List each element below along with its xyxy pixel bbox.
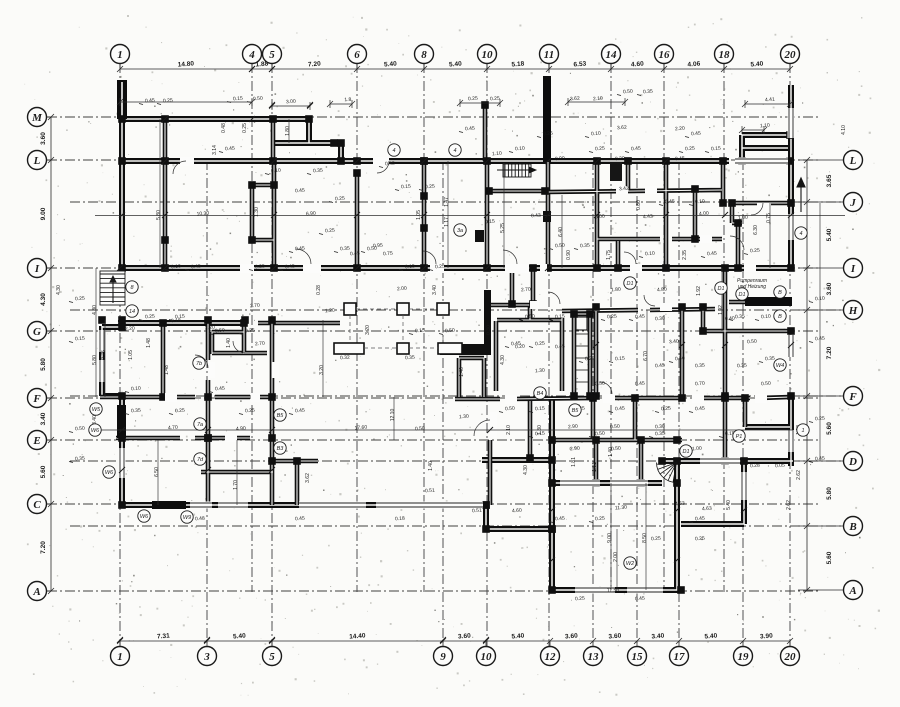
svg-text:0.25: 0.25 bbox=[335, 196, 345, 203]
dimension labels bbox=[40, 60, 833, 640]
svg-text:4.80: 4.80 bbox=[657, 287, 667, 294]
svg-text:L: L bbox=[33, 155, 41, 167]
svg-text:0.25: 0.25 bbox=[595, 516, 605, 523]
svg-text:4.63: 4.63 bbox=[702, 506, 712, 513]
svg-text:1.40: 1.40 bbox=[428, 461, 434, 471]
svg-text:4.30: 4.30 bbox=[523, 465, 529, 475]
svg-text:0.25: 0.25 bbox=[543, 131, 553, 138]
svg-text:0.50: 0.50 bbox=[367, 246, 377, 253]
svg-text:0.45: 0.45 bbox=[225, 146, 235, 153]
svg-text:0.28: 0.28 bbox=[750, 463, 760, 470]
svg-text:B5: B5 bbox=[277, 413, 285, 419]
terrace columns bbox=[334, 303, 462, 354]
svg-text:A: A bbox=[32, 586, 40, 598]
svg-text:3.65: 3.65 bbox=[826, 174, 833, 187]
svg-text:0.45: 0.45 bbox=[615, 406, 625, 413]
left dimension chain bbox=[50, 117, 52, 591]
svg-text:0.32: 0.32 bbox=[340, 355, 350, 362]
svg-text:4: 4 bbox=[392, 148, 395, 154]
pier bbox=[475, 230, 484, 242]
svg-text:3.40: 3.40 bbox=[669, 339, 679, 346]
svg-text:0.45: 0.45 bbox=[635, 596, 645, 603]
svg-text:0.25: 0.25 bbox=[585, 356, 595, 363]
svg-text:0.25: 0.25 bbox=[468, 96, 478, 103]
svg-text:20: 20 bbox=[784, 49, 797, 61]
svg-text:0.15: 0.15 bbox=[485, 219, 495, 226]
svg-text:6: 6 bbox=[354, 49, 360, 61]
svg-text:0.45: 0.45 bbox=[707, 251, 717, 258]
svg-text:2.70: 2.70 bbox=[250, 303, 260, 310]
svg-text:G: G bbox=[33, 326, 41, 338]
svg-text:0.10: 0.10 bbox=[695, 199, 705, 206]
svg-text:0.10: 0.10 bbox=[271, 168, 281, 175]
svg-text:7.20: 7.20 bbox=[826, 346, 833, 359]
svg-text:0.45: 0.45 bbox=[695, 406, 705, 413]
bottom dimension chain bbox=[120, 640, 790, 642]
svg-text:1.00: 1.00 bbox=[692, 446, 702, 453]
svg-text:0.35: 0.35 bbox=[580, 243, 590, 250]
svg-text:0.75: 0.75 bbox=[766, 213, 772, 223]
svg-text:D: D bbox=[848, 456, 857, 468]
svg-text:0.30: 0.30 bbox=[486, 325, 492, 335]
svg-text:3.40: 3.40 bbox=[40, 412, 47, 425]
svg-text:4.41: 4.41 bbox=[765, 97, 775, 104]
svg-text:5.25: 5.25 bbox=[500, 223, 506, 233]
svg-text:0.43: 0.43 bbox=[531, 213, 541, 220]
svg-text:17: 17 bbox=[674, 651, 686, 663]
svg-text:0.45: 0.45 bbox=[145, 98, 155, 105]
svg-text:0.15: 0.15 bbox=[405, 264, 415, 271]
svg-text:0.25: 0.25 bbox=[695, 536, 705, 543]
svg-text:0.10: 0.10 bbox=[815, 296, 825, 303]
svg-text:W4: W4 bbox=[776, 363, 784, 369]
svg-text:0.25: 0.25 bbox=[535, 341, 545, 348]
top dimension chain bbox=[37, 54, 844, 646]
black pier west wall bbox=[117, 405, 126, 438]
svg-text:2.20: 2.20 bbox=[125, 326, 135, 333]
svg-text:1: 1 bbox=[117, 49, 123, 61]
svg-text:0.28: 0.28 bbox=[316, 285, 322, 295]
svg-text:0.35: 0.35 bbox=[695, 363, 705, 370]
dimension tick slashes bbox=[117, 66, 794, 643]
micro wall-thickness annotations bbox=[69, 89, 825, 523]
svg-text:0.10: 0.10 bbox=[761, 314, 771, 321]
window openings bbox=[99, 108, 795, 594]
chimney mass top-left bbox=[117, 80, 127, 119]
svg-text:4.43: 4.43 bbox=[643, 214, 653, 221]
svg-text:3.42: 3.42 bbox=[619, 186, 629, 193]
svg-text:M: M bbox=[31, 112, 43, 124]
svg-text:1.92: 1.92 bbox=[696, 286, 702, 296]
svg-text:4: 4 bbox=[799, 231, 802, 237]
svg-text:15: 15 bbox=[632, 651, 644, 663]
svg-text:1: 1 bbox=[117, 651, 123, 663]
svg-text:2.70: 2.70 bbox=[521, 287, 531, 294]
svg-text:6.70: 6.70 bbox=[643, 351, 649, 361]
svg-text:0.45: 0.45 bbox=[655, 363, 665, 370]
svg-text:0.25: 0.25 bbox=[685, 146, 695, 153]
svg-text:W6: W6 bbox=[91, 428, 100, 434]
svg-text:0.50: 0.50 bbox=[747, 339, 757, 346]
svg-text:0.25: 0.25 bbox=[163, 98, 173, 105]
svg-text:0.45: 0.45 bbox=[511, 341, 521, 348]
black wall segment south bbox=[152, 501, 186, 509]
svg-text:0.25: 0.25 bbox=[661, 406, 671, 413]
svg-text:H: H bbox=[848, 305, 858, 317]
fireplace mass living room corner bbox=[484, 290, 491, 355]
svg-text:20: 20 bbox=[784, 651, 797, 663]
svg-text:7.20: 7.20 bbox=[40, 541, 47, 554]
svg-text:14.80: 14.80 bbox=[178, 60, 195, 68]
svg-text:1.81: 1.81 bbox=[571, 457, 577, 467]
svg-text:0.15: 0.15 bbox=[535, 406, 545, 413]
svg-text:6.50: 6.50 bbox=[154, 467, 160, 477]
svg-text:W5: W5 bbox=[92, 407, 101, 413]
svg-text:0.45: 0.45 bbox=[815, 456, 825, 463]
svg-text:1: 1 bbox=[801, 428, 804, 434]
svg-text:7.20: 7.20 bbox=[308, 61, 321, 69]
svg-text:B: B bbox=[848, 521, 856, 533]
svg-text:0.05: 0.05 bbox=[775, 463, 785, 470]
svg-text:5.40: 5.40 bbox=[826, 228, 833, 241]
svg-text:5.60: 5.60 bbox=[826, 422, 833, 435]
svg-text:4.06: 4.06 bbox=[687, 61, 700, 69]
svg-text:3.62: 3.62 bbox=[570, 96, 580, 103]
svg-text:0.15: 0.15 bbox=[233, 96, 243, 103]
svg-text:1.30: 1.30 bbox=[459, 414, 469, 421]
svg-text:C: C bbox=[33, 499, 41, 511]
svg-text:und Heizung: und Heizung bbox=[738, 284, 766, 290]
svg-text:0.18: 0.18 bbox=[395, 516, 405, 523]
winder stair south-east bbox=[657, 463, 677, 483]
svg-text:4.30: 4.30 bbox=[40, 293, 47, 306]
svg-text:1.40: 1.40 bbox=[608, 447, 614, 457]
svg-text:12: 12 bbox=[545, 651, 557, 663]
svg-text:11.30: 11.30 bbox=[615, 504, 628, 511]
svg-text:1.92: 1.92 bbox=[718, 305, 724, 315]
svg-text:5.80: 5.80 bbox=[156, 210, 162, 220]
svg-text:12.10: 12.10 bbox=[390, 409, 396, 422]
svg-text:0.50: 0.50 bbox=[610, 424, 620, 431]
svg-text:4.60: 4.60 bbox=[631, 61, 644, 69]
svg-text:0.10: 0.10 bbox=[591, 131, 601, 138]
svg-text:6.53: 6.53 bbox=[573, 61, 586, 69]
svg-text:2.62: 2.62 bbox=[786, 500, 792, 510]
svg-text:1.05: 1.05 bbox=[416, 210, 422, 220]
svg-text:0.90: 0.90 bbox=[566, 250, 572, 260]
svg-text:2.00: 2.00 bbox=[397, 286, 407, 293]
svg-text:0.45: 0.45 bbox=[635, 314, 645, 321]
svg-text:2.20: 2.20 bbox=[205, 325, 215, 332]
svg-text:4: 4 bbox=[453, 148, 456, 154]
svg-text:0.50: 0.50 bbox=[595, 431, 605, 438]
svg-text:4.63: 4.63 bbox=[675, 501, 685, 508]
svg-text:0.25: 0.25 bbox=[75, 296, 85, 303]
svg-text:5.40: 5.40 bbox=[384, 61, 397, 69]
pier bbox=[543, 211, 551, 222]
svg-text:5.40: 5.40 bbox=[726, 500, 732, 510]
svg-text:0.50: 0.50 bbox=[253, 96, 263, 103]
svg-text:5.40: 5.40 bbox=[449, 61, 462, 69]
svg-text:5.80: 5.80 bbox=[92, 355, 98, 365]
exterior stair north-west bbox=[100, 271, 125, 305]
svg-text:1.40: 1.40 bbox=[459, 367, 465, 377]
wall junction ink blobs bbox=[98, 101, 795, 594]
svg-text:2.10: 2.10 bbox=[506, 425, 512, 435]
svg-text:0.25: 0.25 bbox=[145, 314, 155, 321]
svg-text:10.30: 10.30 bbox=[196, 210, 209, 217]
svg-text:6.40: 6.40 bbox=[558, 227, 564, 237]
svg-text:0.15: 0.15 bbox=[615, 356, 625, 363]
svg-text:1.47: 1.47 bbox=[444, 197, 450, 207]
svg-text:14.40: 14.40 bbox=[349, 632, 366, 640]
svg-text:1.75: 1.75 bbox=[606, 250, 612, 260]
interior partition walls bbox=[100, 105, 793, 505]
svg-text:B: B bbox=[778, 290, 782, 296]
duct shaft inner bbox=[576, 317, 587, 330]
svg-text:0.50: 0.50 bbox=[215, 328, 225, 335]
svg-text:5.40: 5.40 bbox=[750, 61, 763, 69]
svg-text:9.00: 9.00 bbox=[607, 533, 613, 543]
svg-text:1.48: 1.48 bbox=[164, 365, 170, 375]
svg-text:3.20: 3.20 bbox=[319, 365, 325, 375]
svg-text:0.45: 0.45 bbox=[385, 161, 395, 168]
svg-text:3.40: 3.40 bbox=[651, 633, 664, 641]
svg-text:0.75: 0.75 bbox=[383, 251, 393, 258]
svg-text:3.60: 3.60 bbox=[40, 132, 47, 145]
svg-text:1.80: 1.80 bbox=[611, 287, 621, 294]
svg-text:7.31: 7.31 bbox=[157, 633, 170, 641]
svg-text:0.25: 0.25 bbox=[245, 408, 255, 415]
svg-text:4.70: 4.70 bbox=[168, 425, 178, 432]
svg-text:0.45: 0.45 bbox=[350, 251, 360, 258]
svg-text:0.48: 0.48 bbox=[195, 516, 205, 523]
svg-text:B: B bbox=[778, 314, 782, 320]
svg-text:17.60: 17.60 bbox=[354, 424, 367, 431]
svg-text:3.60: 3.60 bbox=[608, 633, 621, 641]
svg-text:4.30: 4.30 bbox=[56, 285, 62, 295]
svg-text:0.50: 0.50 bbox=[525, 314, 535, 321]
svg-text:0.10: 0.10 bbox=[131, 386, 141, 393]
svg-text:5.40: 5.40 bbox=[704, 633, 717, 641]
svg-text:0.35: 0.35 bbox=[131, 408, 141, 415]
svg-text:3.40: 3.40 bbox=[432, 285, 438, 295]
svg-text:E: E bbox=[32, 435, 40, 447]
svg-text:I: I bbox=[34, 263, 40, 275]
svg-text:W6: W6 bbox=[140, 514, 149, 520]
svg-text:6.00: 6.00 bbox=[595, 214, 605, 221]
svg-text:0.35: 0.35 bbox=[340, 246, 350, 253]
svg-text:4.60: 4.60 bbox=[512, 508, 522, 515]
svg-text:W6: W6 bbox=[105, 470, 114, 476]
svg-text:0.25: 0.25 bbox=[575, 596, 585, 603]
svg-text:3.60: 3.60 bbox=[826, 282, 833, 295]
svg-text:0.25: 0.25 bbox=[325, 228, 335, 235]
svg-text:0.50: 0.50 bbox=[75, 426, 85, 433]
svg-text:W2: W2 bbox=[626, 561, 634, 567]
svg-text:0.30: 0.30 bbox=[615, 156, 625, 163]
svg-text:11: 11 bbox=[544, 49, 554, 61]
svg-text:2.62: 2.62 bbox=[796, 470, 802, 480]
svg-text:1.17: 1.17 bbox=[444, 217, 450, 227]
svg-text:5.80: 5.80 bbox=[826, 487, 833, 500]
svg-text:0.35: 0.35 bbox=[245, 328, 255, 335]
svg-text:0.75: 0.75 bbox=[101, 350, 107, 360]
svg-text:B5: B5 bbox=[572, 408, 580, 414]
svg-text:4.00: 4.00 bbox=[699, 211, 709, 218]
svg-text:16: 16 bbox=[659, 49, 671, 61]
svg-text:0.45: 0.45 bbox=[295, 516, 305, 523]
svg-text:0.25: 0.25 bbox=[750, 248, 760, 255]
svg-text:9.00: 9.00 bbox=[40, 207, 47, 220]
interior dimension chain lines bbox=[95, 119, 845, 590]
svg-text:0.45: 0.45 bbox=[285, 264, 295, 271]
svg-text:0.45: 0.45 bbox=[295, 188, 305, 195]
svg-text:1.81: 1.81 bbox=[592, 462, 598, 472]
svg-text:0.48: 0.48 bbox=[221, 123, 227, 133]
svg-text:3.00: 3.00 bbox=[286, 99, 296, 106]
svg-text:5.60: 5.60 bbox=[826, 551, 833, 564]
svg-text:2.90: 2.90 bbox=[570, 446, 580, 453]
svg-text:7b: 7b bbox=[196, 361, 202, 367]
svg-text:0.35: 0.35 bbox=[655, 431, 665, 438]
svg-text:19: 19 bbox=[738, 651, 750, 663]
svg-text:0.15: 0.15 bbox=[415, 328, 425, 335]
svg-text:8.50: 8.50 bbox=[642, 533, 648, 543]
construction axis grid (dash-dot) bbox=[47, 63, 844, 646]
svg-text:0.35: 0.35 bbox=[75, 456, 85, 463]
svg-text:0.25: 0.25 bbox=[595, 146, 605, 153]
svg-text:4.10: 4.10 bbox=[841, 125, 847, 135]
svg-text:0.45: 0.45 bbox=[295, 408, 305, 415]
vertical axis lines bbox=[119, 63, 121, 646]
svg-text:F: F bbox=[32, 393, 41, 405]
svg-text:2.20: 2.20 bbox=[675, 126, 685, 133]
svg-text:0.35: 0.35 bbox=[735, 314, 745, 321]
svg-text:0.45: 0.45 bbox=[465, 126, 475, 133]
svg-text:0.15: 0.15 bbox=[555, 314, 565, 321]
svg-text:0.25: 0.25 bbox=[651, 536, 661, 543]
svg-text:1.05: 1.05 bbox=[128, 350, 134, 360]
heavy hatched wall top right bbox=[745, 297, 792, 306]
svg-text:0.15: 0.15 bbox=[75, 336, 85, 343]
door swing arcs bbox=[173, 161, 763, 436]
svg-text:3.62: 3.62 bbox=[617, 125, 627, 132]
svg-text:10: 10 bbox=[481, 651, 493, 663]
svg-text:1.30: 1.30 bbox=[254, 207, 260, 217]
svg-text:2.10: 2.10 bbox=[593, 96, 603, 103]
svg-text:0.35: 0.35 bbox=[737, 363, 747, 370]
svg-text:7d: 7d bbox=[197, 457, 204, 463]
svg-text:1.10: 1.10 bbox=[492, 151, 502, 158]
svg-text:0.15: 0.15 bbox=[401, 184, 411, 191]
svg-text:L: L bbox=[849, 155, 857, 167]
svg-text:0.25: 0.25 bbox=[175, 408, 185, 415]
small dimension annotations bbox=[56, 96, 847, 603]
svg-text:6.90: 6.90 bbox=[306, 211, 316, 218]
svg-text:0.45: 0.45 bbox=[675, 156, 685, 163]
svg-text:5.60: 5.60 bbox=[40, 465, 47, 478]
svg-text:13: 13 bbox=[588, 651, 600, 663]
svg-text:0.45: 0.45 bbox=[555, 516, 565, 523]
svg-text:B3: B3 bbox=[277, 446, 285, 452]
svg-text:0.35: 0.35 bbox=[405, 355, 415, 362]
svg-text:14: 14 bbox=[606, 49, 618, 61]
svg-text:3.62: 3.62 bbox=[305, 473, 311, 483]
svg-text:0.25: 0.25 bbox=[255, 264, 265, 271]
svg-text:18: 18 bbox=[719, 49, 731, 61]
svg-text:0.30: 0.30 bbox=[655, 316, 665, 323]
svg-text:0.10: 0.10 bbox=[515, 146, 525, 153]
svg-text:0.45: 0.45 bbox=[191, 264, 201, 271]
svg-text:D1: D1 bbox=[682, 449, 689, 455]
heavy shaft wall axis 11 bbox=[543, 76, 551, 162]
svg-text:B4: B4 bbox=[537, 391, 544, 397]
svg-text:0.90: 0.90 bbox=[555, 156, 565, 163]
svg-text:0.45: 0.45 bbox=[695, 516, 705, 523]
svg-text:0.50: 0.50 bbox=[415, 426, 425, 433]
svg-text:W9: W9 bbox=[183, 515, 191, 521]
svg-text:J: J bbox=[849, 197, 856, 209]
right dimension chain bbox=[806, 160, 808, 590]
svg-text:I: I bbox=[850, 263, 856, 275]
svg-text:1.00: 1.00 bbox=[738, 215, 748, 222]
svg-text:3a: 3a bbox=[457, 228, 463, 234]
svg-text:0.45: 0.45 bbox=[631, 146, 641, 153]
secondary dimension lines bbox=[117, 98, 793, 134]
svg-text:0.25: 0.25 bbox=[815, 416, 825, 423]
svg-text:D1: D1 bbox=[717, 286, 724, 292]
flue block bbox=[610, 162, 622, 181]
svg-text:3: 3 bbox=[203, 651, 210, 663]
svg-text:0.45: 0.45 bbox=[295, 246, 305, 253]
svg-text:4.90: 4.90 bbox=[236, 426, 246, 433]
svg-text:0.51: 0.51 bbox=[472, 508, 482, 515]
svg-text:0.50: 0.50 bbox=[505, 406, 515, 413]
svg-text:0.15: 0.15 bbox=[535, 431, 545, 438]
svg-text:0.10: 0.10 bbox=[645, 251, 655, 258]
svg-text:0.50: 0.50 bbox=[675, 356, 685, 363]
svg-text:1.48: 1.48 bbox=[146, 338, 152, 348]
svg-text:0.51: 0.51 bbox=[425, 488, 435, 495]
svg-text:0.50: 0.50 bbox=[761, 381, 771, 388]
svg-text:3.90: 3.90 bbox=[760, 633, 773, 641]
svg-text:6.30: 6.30 bbox=[753, 225, 759, 235]
svg-text:5.40: 5.40 bbox=[511, 633, 524, 641]
svg-text:2.90: 2.90 bbox=[568, 424, 578, 431]
svg-text:0.50: 0.50 bbox=[555, 243, 565, 250]
door openings bbox=[165, 157, 771, 442]
svg-text:5: 5 bbox=[269, 49, 275, 61]
main stair hall bbox=[497, 164, 536, 177]
svg-text:0.80: 0.80 bbox=[636, 200, 642, 210]
svg-text:1.8: 1.8 bbox=[344, 97, 352, 104]
svg-text:11.50: 11.50 bbox=[607, 588, 619, 594]
svg-text:0.15: 0.15 bbox=[175, 314, 185, 321]
svg-text:0.45: 0.45 bbox=[691, 131, 701, 138]
svg-text:0.50: 0.50 bbox=[595, 381, 605, 388]
svg-text:1.40: 1.40 bbox=[226, 338, 232, 348]
svg-text:D1: D1 bbox=[626, 281, 633, 287]
svg-text:0.15: 0.15 bbox=[711, 146, 721, 153]
horizontal axis lines bbox=[47, 116, 820, 118]
svg-text:3.14: 3.14 bbox=[212, 145, 218, 155]
svg-text:5.40: 5.40 bbox=[233, 633, 246, 641]
exterior load-bearing walls bbox=[100, 80, 793, 590]
svg-text:0.25: 0.25 bbox=[242, 123, 248, 133]
svg-text:0.70: 0.70 bbox=[695, 381, 705, 388]
svg-text:5: 5 bbox=[269, 651, 275, 663]
